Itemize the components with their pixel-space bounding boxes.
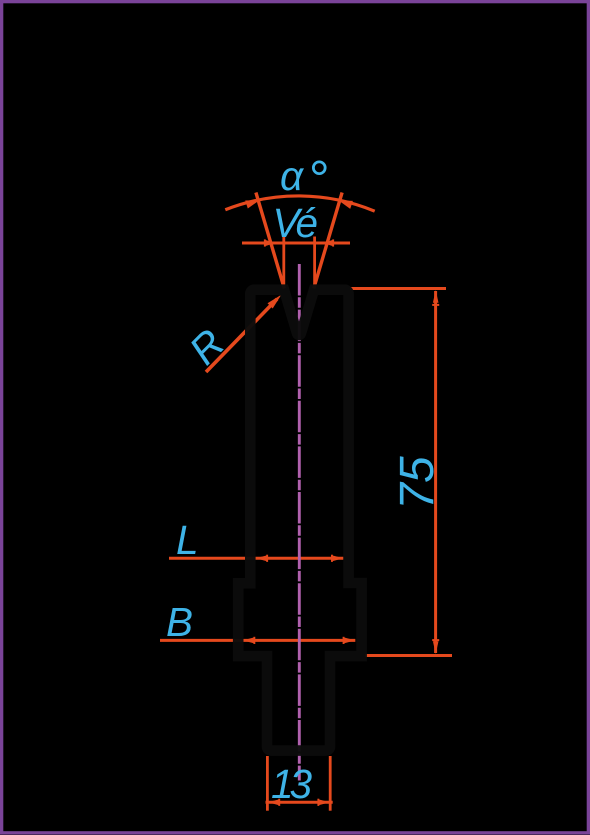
- svg-text:75: 75: [391, 456, 444, 510]
- L arrow right (tip at shank inner edge, pointing right): [332, 555, 344, 561]
- 75 dimension line: [434, 291, 437, 653]
- 75 bottom extension line: [365, 654, 452, 657]
- 75 arrow up: [433, 290, 439, 303]
- svg-text:α: α: [280, 153, 305, 199]
- 13 extension line left: [266, 756, 269, 811]
- V-groove side extension line right: [314, 193, 342, 289]
- B dimension line: [160, 639, 355, 642]
- arc arrowhead right: [339, 200, 353, 209]
- 13 arrow left: [268, 799, 280, 805]
- svg-text:B: B: [166, 599, 193, 645]
- L dimension line: [169, 557, 343, 560]
- Ve dimension line: [242, 242, 350, 245]
- 75 arrow down: [433, 641, 439, 654]
- 75 top extension line: [350, 287, 446, 290]
- center line (dash-dot, purple): [298, 264, 301, 781]
- svg-text:Vé: Vé: [273, 200, 318, 246]
- Ve arrow left (outside, pointing right/inward): [265, 240, 275, 246]
- body outline with V-groove: [238, 290, 361, 751]
- svg-text:13: 13: [271, 761, 313, 807]
- arrowhead of R leader: [268, 295, 282, 309]
- arc arrowhead left: [245, 200, 259, 208]
- V-groove side extension line left: [256, 193, 284, 289]
- B arrow left: [243, 637, 255, 643]
- 13 dimension line: [266, 801, 333, 804]
- L arrow left (tip at shank inner edge, pointing left): [256, 555, 268, 561]
- svg-text:L: L: [176, 517, 199, 563]
- 13 arrow right: [318, 799, 330, 805]
- 13 extension line right: [329, 756, 332, 811]
- B arrow right: [343, 637, 355, 643]
- Ve extension line right: [313, 237, 316, 288]
- angle arc alpha: [225, 196, 374, 211]
- leader line R: [206, 299, 277, 372]
- Ve arrow right (outside, pointing left/inward): [323, 240, 333, 246]
- Ve extension line left: [282, 237, 285, 288]
